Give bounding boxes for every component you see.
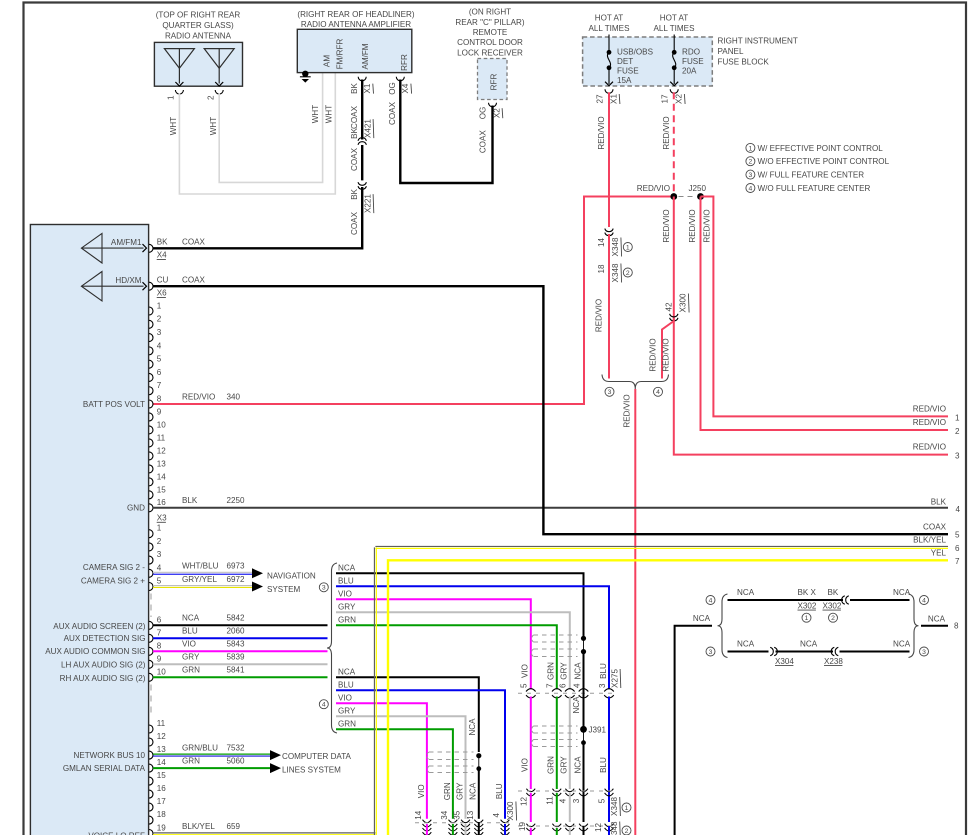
svg-text:5841: 5841 — [227, 666, 246, 675]
svg-text:COAX: COAX — [350, 211, 359, 235]
svg-text:5060: 5060 — [227, 756, 246, 765]
connector X348 pin14/18 — [605, 229, 613, 232]
radio X6 pin 6 — [149, 368, 162, 382]
svg-text:RED/VIO: RED/VIO — [913, 418, 946, 427]
label GRN/BLU 7532 — [182, 743, 245, 752]
svg-text:RED/VIO: RED/VIO — [182, 392, 215, 401]
svg-text:RFR: RFR — [489, 74, 498, 91]
wire RED/VIO J250 to pin2 (right) — [701, 197, 949, 431]
svg-text:1: 1 — [626, 244, 630, 251]
label 6 GRY at X275 — [559, 662, 569, 688]
note circle 2 at X348 row2 — [622, 826, 631, 835]
svg-text:14: 14 — [157, 472, 167, 481]
X348 column wires below row2 — [531, 826, 609, 835]
wire RED/VIO J250 down to pin3 (right) — [674, 197, 948, 455]
radio X3 pin 15 — [149, 771, 166, 785]
svg-text:NCA: NCA — [573, 756, 582, 774]
fuse block caption — [718, 37, 798, 67]
label 3 BLU at X275 — [598, 663, 608, 688]
svg-text:PANEL: PANEL — [718, 47, 744, 56]
svg-text:NCA: NCA — [338, 564, 356, 573]
svg-text:HOT AT: HOT AT — [595, 14, 624, 23]
label NAVIGATION SYSTEM — [267, 571, 316, 594]
svg-text:17: 17 — [661, 94, 670, 104]
svg-text:11: 11 — [546, 796, 555, 805]
arrow computer data — [270, 750, 281, 760]
svg-text:CONTROL DOOR: CONTROL DOOR — [457, 38, 523, 47]
svg-text:VIO: VIO — [521, 758, 530, 772]
radio antenna amplifier box U-amp — [297, 29, 412, 72]
svg-text:RED/VIO: RED/VIO — [623, 394, 632, 427]
svg-text:GRN: GRN — [547, 756, 556, 774]
svg-text:14: 14 — [597, 238, 606, 248]
radio X3 pin 18 — [149, 810, 166, 824]
svg-text:659: 659 — [227, 822, 241, 831]
svg-text:1: 1 — [167, 95, 176, 100]
svg-text:3: 3 — [608, 389, 612, 396]
connector X238 — [831, 647, 834, 655]
svg-text:FM/RFR: FM/RFR — [336, 39, 345, 70]
radio X6 pin 15 — [149, 485, 166, 499]
svg-text:AUX DETECTION SIG: AUX DETECTION SIG — [64, 634, 146, 643]
radio pin X4 connector — [149, 244, 153, 252]
radio X3 pin 5 — [149, 577, 162, 591]
svg-text:16: 16 — [157, 784, 167, 793]
svg-text:GRY: GRY — [455, 782, 464, 800]
svg-text:19: 19 — [157, 824, 167, 833]
svg-text:1: 1 — [955, 413, 960, 422]
svg-text:RED/VIO: RED/VIO — [597, 116, 606, 149]
svg-text:BK: BK — [350, 128, 359, 139]
svg-text:COAX: COAX — [182, 275, 206, 284]
svg-text:BLK/YEL: BLK/YEL — [182, 822, 215, 831]
svg-text:RED/VIO: RED/VIO — [662, 338, 671, 371]
radio antenna input symbol HD/XM — [81, 272, 146, 301]
shield C around X300 VIO/GRN/GRY — [427, 752, 474, 773]
svg-text:2250: 2250 — [227, 496, 246, 505]
svg-text:3: 3 — [709, 649, 713, 656]
svg-text:16: 16 — [157, 498, 167, 507]
svg-text:X302: X302 — [798, 601, 817, 610]
label NCA 5842 — [182, 614, 245, 623]
svg-text:13: 13 — [157, 459, 167, 468]
svg-text:12: 12 — [157, 446, 167, 455]
svg-text:9: 9 — [157, 407, 162, 416]
radio X6 pin 5 — [149, 355, 162, 369]
svg-text:AM: AM — [323, 55, 332, 67]
svg-text:SYSTEM: SYSTEM — [267, 585, 301, 594]
wire COAX amplifier RFR to door lock receiver — [400, 80, 492, 184]
note circle 4 at brace — [654, 387, 663, 396]
svg-text:2: 2 — [157, 537, 162, 546]
svg-text:7: 7 — [157, 628, 162, 637]
svg-text:NCA: NCA — [469, 782, 478, 800]
svg-text:11: 11 — [157, 433, 166, 442]
amplifier ground symbol — [300, 71, 311, 83]
note circle 2 below X302b — [829, 613, 838, 622]
radio X6 pin 3 — [149, 328, 162, 342]
svg-text:X1: X1 — [610, 94, 619, 104]
svg-text:REAR "C" PILLAR): REAR "C" PILLAR) — [455, 18, 524, 27]
svg-text:GRN: GRN — [182, 756, 200, 765]
svg-text:COAX: COAX — [388, 101, 397, 125]
wire COAX X221 to radio X4 — [153, 187, 362, 248]
svg-text:5: 5 — [598, 798, 607, 803]
svg-text:17: 17 — [157, 797, 167, 806]
svg-text:RFR: RFR — [400, 54, 409, 71]
svg-text:7: 7 — [157, 381, 162, 390]
svg-text:4: 4 — [157, 563, 162, 572]
svg-text:BLU: BLU — [599, 663, 608, 679]
label 7 GRN at X275 — [546, 662, 556, 688]
wire WHT antenna1 to amplifier FM/RFR — [179, 73, 335, 194]
antenna pin 1 connector — [167, 90, 184, 100]
connector X302 — [842, 596, 845, 604]
svg-text:RADIO ANTENNA AMPLIFIER: RADIO ANTENNA AMPLIFIER — [301, 20, 411, 29]
svg-text:RED/VIO: RED/VIO — [913, 443, 946, 452]
shield C drain dots — [476, 753, 481, 771]
label RED/VIO 340 at radio pin8 — [182, 392, 241, 401]
svg-text:NCA: NCA — [182, 614, 200, 623]
fuse1 output connector — [605, 89, 613, 93]
wire NCA X302 to right brace — [850, 599, 910, 601]
svg-text:X238: X238 — [824, 657, 843, 666]
svg-text:GND: GND — [127, 504, 145, 513]
svg-text:BK: BK — [157, 237, 168, 246]
svg-text:BATT POS VOLT: BATT POS VOLT — [83, 400, 145, 409]
fuse2 output connector — [670, 89, 678, 93]
wire NCA X238 to right brace — [840, 651, 910, 653]
X300 wires below rows — [427, 822, 505, 835]
svg-text:NCA: NCA — [737, 639, 755, 648]
svg-text:X4: X4 — [157, 251, 167, 260]
wire radio aux pin 7 — [153, 637, 328, 639]
svg-text:3: 3 — [955, 452, 960, 461]
svg-text:BLK: BLK — [182, 496, 198, 505]
wire group4 VIO — [336, 703, 427, 819]
svg-text:BLU: BLU — [599, 757, 608, 773]
svg-text:FUSE: FUSE — [617, 67, 639, 76]
svg-text:COAX: COAX — [923, 523, 947, 532]
svg-text:NCA: NCA — [338, 668, 356, 677]
arrow to navigation 2 — [252, 582, 263, 592]
wire BK COAX amplifier AM/FM to X421 — [361, 80, 363, 140]
svg-text:RED/VIO: RED/VIO — [688, 209, 697, 242]
wire RED/VIO radio pin8 to J250 — [153, 197, 671, 405]
note circle 1 at X348 — [623, 243, 632, 252]
wire BLK/YEL 659 radio pin19 — [153, 832, 375, 834]
wire group3 NCA — [336, 573, 584, 638]
label VIO 5843 — [182, 640, 245, 649]
svg-text:2: 2 — [625, 828, 629, 835]
svg-text:3: 3 — [157, 550, 162, 559]
wire NCA option4 to X302 — [728, 599, 844, 601]
radio X3 pin 17 — [149, 797, 166, 811]
svg-text:15: 15 — [157, 771, 167, 780]
wire RED/VIO J250 to pin1 (right) — [701, 197, 949, 417]
svg-text:NETWORK BUS 10: NETWORK BUS 10 — [73, 751, 145, 760]
X275 row dashed link — [518, 692, 614, 694]
shield A around VIO/GRN/GRY (upper) — [531, 635, 577, 657]
fuse F1 USB/OBS DET FUSE 15A — [605, 35, 613, 86]
svg-text:AM/FM: AM/FM — [361, 43, 370, 69]
wire group4 BLU — [336, 690, 505, 819]
wire radio aux pin 10 — [153, 676, 328, 678]
svg-text:J391: J391 — [589, 725, 607, 734]
junction dot J250 a — [670, 193, 677, 200]
svg-text:6: 6 — [955, 544, 960, 553]
svg-text:BLK/YEL: BLK/YEL — [913, 536, 946, 545]
brace splitting aux wires into groups 3 and 4 — [327, 563, 337, 733]
antenna pin 2 connector — [207, 90, 224, 100]
X300 row1 arcs — [423, 820, 432, 823]
svg-text:OG: OG — [479, 107, 488, 120]
svg-text:X421: X421 — [363, 119, 372, 138]
svg-text:COAX: COAX — [182, 237, 206, 246]
svg-text:4: 4 — [922, 597, 926, 604]
svg-text:VIO: VIO — [182, 640, 196, 649]
wire GRN 5060 pin14 to computer data — [153, 767, 270, 769]
svg-text:RADIO ANTENNA: RADIO ANTENNA — [165, 32, 232, 41]
svg-text:12: 12 — [157, 732, 167, 741]
arrow computer data 2 — [270, 763, 281, 773]
note circle 2 at X348 — [623, 268, 632, 277]
antenna symbol 1 — [164, 49, 194, 86]
shield B drain dot — [581, 729, 586, 745]
svg-text:3: 3 — [157, 328, 162, 337]
svg-text:WHT/BLU: WHT/BLU — [182, 562, 219, 571]
svg-text:NCA: NCA — [928, 615, 946, 624]
svg-text:W/ EFFECTIVE POINT CONTROL: W/ EFFECTIVE POINT CONTROL — [758, 144, 884, 153]
svg-text:2: 2 — [831, 615, 835, 622]
svg-text:X4: X4 — [401, 83, 410, 93]
svg-text:10: 10 — [157, 420, 167, 429]
connector continuation dashes X3 a — [150, 594, 152, 618]
legend note 1 — [746, 143, 883, 152]
junction J391 — [580, 726, 587, 733]
svg-text:GRN: GRN — [443, 782, 452, 800]
radio head unit box — [30, 225, 148, 835]
svg-text:BLU: BLU — [338, 577, 354, 586]
X348 row1 dashed link — [518, 790, 614, 792]
X348 row2 pin numbers — [518, 822, 603, 833]
wire group3 GRY — [336, 612, 570, 689]
radio X6 pin 9 — [149, 407, 162, 421]
svg-text:3: 3 — [749, 172, 753, 179]
svg-text:NCA: NCA — [893, 639, 911, 648]
connector X300 pin42 — [670, 314, 678, 317]
radio antenna amplifier caption — [297, 10, 415, 29]
svg-text:REMOTE: REMOTE — [473, 28, 508, 37]
svg-text:RH AUX AUDIO SIG (2): RH AUX AUDIO SIG (2) — [60, 674, 146, 683]
svg-text:2: 2 — [207, 95, 216, 100]
wire WHT/BLU 6973 pin4 to navigation — [153, 571, 252, 573]
radio X3 pin 4 — [149, 563, 162, 577]
svg-text:5839: 5839 — [227, 653, 246, 662]
svg-text:WHT: WHT — [169, 117, 178, 135]
connector continuation dashes X3 b — [150, 685, 152, 715]
svg-text:VIO: VIO — [417, 784, 426, 798]
wire radio aux pin 8 — [153, 650, 328, 652]
svg-text:AUX AUDIO SCREEN (2): AUX AUDIO SCREEN (2) — [53, 622, 146, 631]
note circle 3 right — [920, 647, 929, 656]
radio X6 pin 4 — [149, 341, 162, 355]
radio pin X6 connector — [149, 282, 153, 290]
wire RED/VIO X300 branch to brace — [662, 319, 674, 379]
svg-text:GRY: GRY — [560, 662, 569, 680]
note circle 4 left of group4 — [319, 700, 328, 709]
svg-text:W/O FULL FEATURE CENTER: W/O FULL FEATURE CENTER — [758, 184, 871, 193]
fuse F2 label — [682, 48, 704, 76]
amplifier AM/FM pin connector — [358, 77, 366, 81]
svg-text:DET: DET — [617, 57, 633, 66]
svg-text:2060: 2060 — [227, 627, 246, 636]
radio X6 pin 13 — [149, 459, 166, 473]
label GRN 5841 — [182, 666, 245, 675]
svg-text:LH AUX AUDIO SIG (2): LH AUX AUDIO SIG (2) — [61, 661, 146, 670]
svg-text:W/ FULL FEATURE CENTER: W/ FULL FEATURE CENTER — [758, 171, 865, 180]
svg-text:4: 4 — [492, 813, 501, 818]
wire COAX HD/XM to right pin5 — [153, 286, 948, 534]
svg-text:42: 42 — [665, 302, 674, 312]
svg-text:13: 13 — [466, 810, 475, 820]
svg-text:4: 4 — [157, 341, 162, 350]
svg-text:3: 3 — [598, 683, 607, 688]
label COMPUTER DATA LINES SYSTEM — [282, 752, 352, 775]
svg-text:1: 1 — [157, 524, 162, 533]
svg-text:LOCK RECEIVER: LOCK RECEIVER — [457, 48, 523, 57]
svg-text:NCA: NCA — [737, 588, 755, 597]
svg-text:3: 3 — [572, 798, 581, 803]
radio X3 pin 7 — [149, 628, 162, 642]
X275 connector row arcs — [529, 692, 533, 695]
svg-text:3: 3 — [922, 649, 926, 656]
label BLU 2060 — [182, 627, 245, 636]
right instrument panel fuse block box (dashed) — [583, 37, 713, 86]
radio X3 pin 19 — [149, 824, 166, 835]
label 5 VIO at X275 — [520, 664, 530, 688]
svg-text:5: 5 — [157, 577, 162, 586]
svg-text:7532: 7532 — [227, 743, 246, 752]
svg-text:14: 14 — [157, 758, 167, 767]
X275 column wires below row — [530, 697, 532, 790]
svg-text:NCA: NCA — [572, 696, 581, 714]
svg-text:5: 5 — [157, 355, 162, 364]
X348 row1 arcs — [526, 789, 535, 792]
svg-text:BK: BK — [828, 588, 839, 597]
svg-text:12: 12 — [594, 823, 603, 833]
svg-text:FUSE BLOCK: FUSE BLOCK — [718, 58, 770, 67]
wire RED/VIO X348 to brace — [608, 234, 610, 379]
X300 row2 arcs — [423, 828, 432, 831]
svg-text:6: 6 — [157, 615, 162, 624]
svg-text:GRN: GRN — [338, 720, 356, 729]
svg-text:X300: X300 — [679, 293, 688, 312]
svg-text:(RIGHT REAR OF HEADLINER): (RIGHT REAR OF HEADLINER) — [297, 10, 415, 19]
svg-text:6: 6 — [157, 368, 162, 377]
svg-text:(TOP OF RIGHT REAR: (TOP OF RIGHT REAR — [156, 11, 241, 20]
svg-text:NCA: NCA — [468, 718, 477, 736]
svg-text:4: 4 — [956, 505, 961, 514]
svg-text:35: 35 — [453, 810, 462, 820]
svg-text:X300: X300 — [506, 801, 515, 820]
radio X6 pin 10 — [149, 420, 166, 434]
svg-text:GRN: GRN — [182, 666, 200, 675]
svg-text:2: 2 — [955, 427, 960, 436]
svg-text:BLU: BLU — [182, 627, 198, 636]
wire group3 GRN — [336, 625, 557, 689]
svg-text:NCA: NCA — [573, 662, 582, 680]
radio X3 pin 8 — [149, 641, 162, 655]
radio X3 pin 6 — [149, 615, 162, 629]
radio X6 pin 1 — [149, 301, 162, 315]
svg-text:5843: 5843 — [227, 640, 246, 649]
svg-text:GRN: GRN — [338, 616, 356, 625]
junction dot J250 b — [697, 193, 704, 200]
X348 row1 pin numbers — [520, 796, 607, 806]
svg-text:7: 7 — [955, 557, 960, 566]
svg-text:9: 9 — [157, 654, 162, 663]
svg-text:BK: BK — [350, 188, 359, 199]
svg-text:1: 1 — [625, 805, 629, 812]
svg-text:2: 2 — [626, 270, 630, 277]
svg-text:6973: 6973 — [227, 562, 246, 571]
radio X6 pin 14 — [149, 472, 166, 486]
svg-text:5: 5 — [520, 683, 529, 688]
svg-text:1: 1 — [157, 301, 162, 310]
svg-text:AM/FM1: AM/FM1 — [111, 238, 142, 247]
wire YEL to right pin7 — [388, 560, 948, 835]
fuse F2 RDO FUSE 20A — [670, 35, 678, 86]
radio X6 pin 2 — [149, 315, 162, 329]
svg-text:34: 34 — [440, 810, 449, 820]
wire GRN/BLU 7532 pin13 to computer data — [153, 753, 270, 755]
wire GRY/YEL 6972 pin5 to navigation — [153, 585, 252, 587]
wire group4 GRY — [336, 716, 466, 819]
radio X6 pin 12 — [149, 446, 166, 460]
label CU COAX at X6 — [157, 275, 206, 284]
svg-text:GRN: GRN — [547, 662, 556, 680]
svg-text:18: 18 — [597, 264, 606, 274]
connector X304 — [774, 647, 777, 655]
wire NCA brace to pin8 — [921, 625, 948, 627]
arrow to navigation — [252, 568, 263, 578]
svg-text:BK X: BK X — [798, 588, 817, 597]
svg-text:8: 8 — [157, 394, 162, 403]
wire group3 BLU — [336, 586, 609, 689]
radio X6 pin 7 — [149, 381, 162, 395]
svg-text:8: 8 — [157, 641, 162, 650]
note circle 4 at option4 wire — [706, 596, 715, 605]
radio antenna box — [154, 42, 242, 86]
svg-text:X275: X275 — [610, 669, 619, 688]
svg-text:11: 11 — [157, 719, 166, 728]
svg-text:ALL TIMES: ALL TIMES — [589, 24, 631, 33]
label BK COAX at X4 — [157, 237, 206, 246]
svg-text:GRY: GRY — [338, 603, 356, 612]
svg-text:GRN/BLU: GRN/BLU — [182, 743, 218, 752]
receiver pin connector — [489, 103, 497, 107]
svg-text:1: 1 — [805, 615, 809, 622]
svg-text:RED/VIO: RED/VIO — [913, 404, 946, 413]
label BLK/YEL 659 — [182, 822, 241, 831]
note circle 1 below X302 — [802, 613, 811, 622]
svg-text:VIO: VIO — [338, 590, 352, 599]
label GRY 5839 — [182, 653, 245, 662]
svg-text:ALL TIMES: ALL TIMES — [654, 24, 696, 33]
NCA wire J391 down to X348 row — [583, 743, 585, 822]
label WHT/BLU 6973 — [182, 562, 245, 571]
